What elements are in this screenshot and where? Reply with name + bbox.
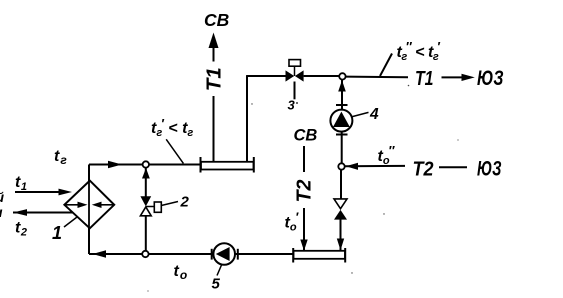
- svg-text:Т1: Т1: [415, 67, 434, 90]
- svg-text:tо: tо: [174, 263, 188, 282]
- svg-text:Т2: Т2: [413, 157, 435, 180]
- svg-text:й: й: [0, 189, 5, 205]
- svg-text:tо″: tо″: [378, 143, 396, 167]
- svg-text:Т2: Т2: [294, 180, 316, 203]
- svg-text:4: 4: [369, 106, 379, 123]
- svg-text:ЮЗ: ЮЗ: [477, 157, 502, 180]
- svg-text:tг: tг: [54, 148, 67, 167]
- svg-text:Т1: Т1: [204, 67, 226, 91]
- svg-text:ЮЗ: ЮЗ: [477, 67, 504, 90]
- svg-text:5: 5: [212, 276, 221, 293]
- svg-text:2: 2: [180, 194, 190, 211]
- svg-text:t2: t2: [15, 220, 27, 239]
- svg-text:СВ: СВ: [294, 127, 318, 145]
- svg-text:1: 1: [52, 223, 62, 243]
- svg-text:3: 3: [288, 98, 296, 113]
- svg-text:tг″ < tг′: tг″ < tг′: [397, 39, 441, 63]
- svg-text:и: и: [0, 204, 3, 220]
- svg-text:СВ: СВ: [204, 10, 229, 30]
- svg-text:tг′ < tг: tг′ < tг: [151, 116, 193, 139]
- svg-text:tо′: tо′: [285, 210, 300, 234]
- svg-text:t1: t1: [15, 174, 27, 193]
